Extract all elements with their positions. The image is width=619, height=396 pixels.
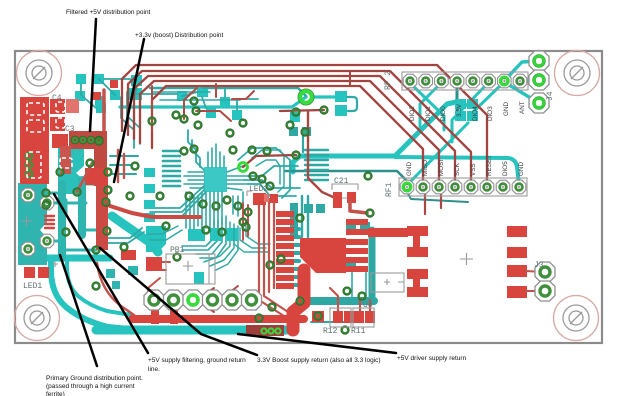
svg-text:Filtered +5V distribution poin: Filtered +5V distribution point: [66, 9, 151, 16]
wire: teal horizontal y96 going to J4: [313, 95, 336, 98]
wire: red pad right of blob: [312, 311, 324, 322]
svg-text:J3: J3: [534, 261, 544, 270]
wire: red stubs left-center: [118, 150, 124, 182]
svg-text:GND: GND: [518, 162, 525, 176]
header RF2 outline: [402, 72, 528, 90]
svg-text:C21: C21: [334, 177, 349, 186]
svg-text:VSS: VSS: [470, 163, 477, 176]
LED2 pads: [253, 193, 266, 205]
svg-text:MISO: MISO: [422, 160, 429, 176]
wire: red stubs below RF1: [425, 194, 441, 214]
wire: C21 to via: [350, 201, 367, 213]
wire: teal right-bottom misc: [302, 196, 308, 237]
origin cross left: [21, 216, 32, 226]
svg-text:U4: U4: [363, 301, 373, 310]
mounting hole H1 (top-left): [17, 51, 62, 96]
svg-text:J4: J4: [546, 91, 555, 101]
wire: red horizontal y110: [280, 110, 324, 111]
MCU pin fan: right: [227, 166, 248, 190]
cyan cluster above PB1: [188, 228, 238, 284]
wire: cyan to J4 top pad: [504, 61, 539, 81]
PB1 feed stubs: [151, 309, 159, 324]
wire: red verticals center-bottom: [259, 197, 288, 316]
wire: left thick cyan from LED1: [22, 255, 110, 262]
svg-text:line.: line.: [148, 366, 160, 373]
wire: teal around ferrite: [48, 193, 66, 214]
wire: red vertical strip x96-108: [96, 185, 108, 250]
mounting hole H2 (top-right): [555, 51, 600, 96]
wire: red diag into PB1 area: [196, 286, 238, 312]
svg-text:3.3V Boost supply return (also: 3.3V Boost supply return (also all 3.3 l…: [257, 357, 381, 364]
wire: red traces top-left of PB1: [148, 262, 170, 270]
wire: cyan ANT to J4 mid: [521, 79, 539, 84]
mounting hole H4 (bottom-right): [554, 296, 599, 341]
svg-text:DIO3: DIO3: [487, 106, 494, 121]
wire: teal fan extras: [204, 222, 238, 270]
svg-text:Primary Ground distribution po: Primary Ground distribution point.: [46, 375, 143, 382]
cyan pads top area (near C4): [75, 74, 300, 122]
wire: teal traces PB1 top: [234, 226, 270, 252]
SOIC ladder left of MCU: [163, 151, 180, 186]
PB1 pad3 bright ring: [188, 295, 198, 305]
PB1 origin cross: [183, 261, 193, 271]
capacitor C4 pads: [50, 99, 65, 114]
teal pads row above U5: [344, 222, 370, 271]
plane: cyan blob x60-81: [58, 148, 84, 194]
small pads on power block: [26, 153, 32, 177]
board origin cross right: [460, 253, 473, 265]
wire: bottom-layer GND bar (thick cyan bottom): [96, 326, 287, 335]
svg-text:ferrite): ferrite): [46, 391, 65, 396]
wire: teal right of MCU to C21 area: [244, 166, 300, 196]
wire: cyan thick from RF1 pad8: [395, 157, 519, 184]
vias scattered: [95, 137, 103, 145]
wire: teal loop right of MCU: [238, 148, 290, 198]
svg-text:DIO2: DIO2: [409, 106, 416, 121]
resistor R12 pads: [333, 311, 354, 323]
wire: red net around C3 vias: [77, 163, 92, 192]
svg-text:R11: R11: [351, 327, 366, 336]
teal ladder x303-330: [305, 150, 328, 180]
MCU pin fan: top: [208, 144, 224, 167]
svg-text:C3: C3: [65, 125, 75, 134]
capacitor C12 cyan pads near RF2: [455, 99, 478, 121]
resistor R11 pads: [354, 311, 375, 323]
wire: teal bundle PB1 fan: [182, 216, 226, 258]
leader line 1: [54, 19, 396, 366]
svg-text:ANT: ANT: [519, 101, 526, 114]
U5 pin stubs right: [346, 219, 368, 272]
wire: left column teal net: [47, 184, 106, 250]
via trio on GND bar: [261, 328, 280, 333]
svg-text:RF1: RF1: [385, 182, 394, 197]
wire: red strip below C3: [94, 149, 107, 186]
teal squares near PB1 left: [106, 266, 138, 289]
transistor U4 outline: [371, 273, 404, 292]
MCU U1 body: [204, 167, 227, 192]
power entry block left: [20, 97, 49, 184]
pad structure I1: [407, 226, 428, 257]
LED1 pads: [24, 267, 35, 278]
wire: cyan from RF1 pad1 down: [293, 102, 456, 172]
wire: teal upper area right of bus bend: [152, 92, 240, 100]
wire: red bottom bar: [132, 315, 304, 323]
svg-text:LED1: LED1: [23, 282, 42, 291]
resistor R11 outline: [353, 308, 374, 327]
leader line 2: [114, 39, 144, 182]
wire: red curve inside GND sweep: [97, 263, 134, 315]
wire: red around PB1 pads: [148, 278, 174, 311]
wire: teal bundle from left to MCU region: [104, 228, 144, 243]
svg-text:MOSI: MOSI: [438, 160, 445, 176]
wire: cyan diagonals under RF2: [409, 82, 444, 130]
leader line 3: [60, 255, 97, 366]
wire: teal stubs filler left-center: [110, 156, 138, 174]
bright green via (boost distribution): [300, 91, 311, 102]
driver PA ladder bars: [276, 211, 294, 289]
wire: R11/R12 risers: [330, 288, 370, 311]
connector J3 pads: [535, 262, 555, 282]
wire: red misc top-center: [152, 84, 254, 130]
svg-text:R12: R12: [323, 327, 338, 336]
header RF1 pads: [400, 180, 414, 194]
svg-text:RESET: RESET: [486, 155, 493, 176]
wire: nested teal curves upper-left of MCU: [121, 92, 140, 148]
teal PA ladder stripes right: [282, 229, 299, 285]
RF2 pad7 bright ring: [500, 77, 508, 85]
wire: teal from MCU down-left bundle: [148, 186, 206, 216]
wire: red trace down from bus: [349, 71, 351, 86]
J3 feed pads column: [507, 226, 527, 298]
wire: red horizontal y156: [243, 155, 296, 167]
wire: thin teal y322: [311, 321, 347, 323]
svg-text:+3.3v (boost) Distribution poi: +3.3v (boost) Distribution point: [135, 32, 224, 39]
wire: J3 connections: [525, 271, 545, 291]
bus wire 1 (top): [122, 65, 487, 186]
mounting hole H3 (bottom-left): [15, 296, 60, 341]
white dashed component outlines on power block: [27, 102, 72, 178]
leader line 5: [100, 248, 257, 355]
bus wire 3: [134, 76, 455, 186]
LED1 plus mark: [52, 261, 58, 267]
wire: teal vertical bar 1: [58, 184, 66, 258]
wire: red S-blob: [293, 270, 304, 330]
header RF1 outline: [399, 178, 527, 196]
RF1 pad1 bright ring: [403, 183, 411, 191]
wire: red curvy center-left: [99, 194, 200, 217]
plane: left teal plane: [18, 183, 47, 265]
dark red patch under via trio: [246, 325, 284, 336]
wire: cyan traces MCU to upper left: [188, 130, 204, 170]
connector C3 pad row: [71, 136, 103, 144]
pad structure I2: [407, 269, 428, 297]
wire: teal traces below MCU to bottom: [233, 192, 243, 218]
left power pads (white octagons): [21, 188, 35, 202]
plane: cyan blob left of PB1: [146, 226, 166, 252]
wire: cyan to J4 bottom pad: [409, 123, 468, 183]
wire: teal vertical bar right-center: [369, 230, 376, 300]
svg-text:RF 2: RF 2: [384, 71, 393, 90]
pushbutton PB1 outline: [166, 254, 215, 284]
LED2 underline bracket: [247, 191, 252, 196]
red square x122: [121, 250, 136, 260]
svg-text:PB1: PB1: [170, 246, 185, 255]
teal strip behind PA ladder (in red layer but under bars): [290, 203, 298, 239]
capacitor C21 outline: [332, 184, 358, 198]
svg-text:(passed through a high current: (passed through a high current: [46, 383, 135, 390]
bright green via right of MCU: [239, 163, 248, 172]
connector J4 pads: [529, 51, 549, 113]
svg-text:DIO1: DIO1: [425, 106, 432, 121]
wire: big cyan diagonal to PB1 blob: [112, 216, 158, 252]
board outline: [15, 51, 602, 343]
transistor U5 power block: [300, 238, 346, 273]
connector C3 block with pads: [69, 131, 107, 149]
wire: wide red bar to I-structure: [368, 228, 408, 237]
wire: teal bar y302: [300, 297, 374, 305]
U4 pad crosses: [384, 279, 404, 285]
red square left of PB1: [146, 257, 162, 271]
svg-text:LED2: LED2: [249, 185, 268, 194]
svg-text:C4: C4: [52, 94, 62, 103]
wire: teal from U5 down: [352, 271, 366, 298]
diode D1 pads above: [93, 92, 101, 100]
bus wire 2: [128, 71, 471, 186]
svg-text:SCK: SCK: [454, 162, 461, 176]
wire: teal vertical bar 2: [78, 180, 86, 235]
pushbutton PB1 pad row: [144, 290, 164, 310]
MCU pin fan: bottom ladder: [186, 192, 222, 232]
svg-text:GND: GND: [406, 162, 413, 176]
svg-text:DIO4: DIO4: [472, 106, 479, 121]
leader line 4: [54, 194, 148, 353]
wire: teal horizontal long y108: [120, 97, 306, 107]
wire: teal net top-left cluster: [81, 79, 258, 110]
bus wire 5: [152, 86, 423, 186]
wire: extra teal loops right of MCU: [252, 150, 284, 192]
svg-text:DIO5: DIO5: [502, 161, 509, 176]
MCU pin fan: left: [184, 172, 204, 188]
svg-text:DIO0: DIO0: [440, 106, 447, 121]
leader line 6: [238, 334, 396, 353]
svg-text:+5V supply filtering, ground r: +5V supply filtering, ground return: [148, 357, 246, 364]
resistor R12 outline: [330, 308, 351, 327]
bus wire 4: [140, 81, 439, 186]
wire: thin red trace x104 y90-130: [102, 90, 106, 130]
capacitor C21 pads: [333, 192, 342, 208]
svg-text:+5V driver supply return: +5V driver supply return: [397, 355, 467, 362]
ferrite bead FB1 stripes: [45, 216, 54, 228]
svg-text:3.3V: 3.3V: [456, 103, 463, 117]
svg-text:GND: GND: [503, 102, 510, 116]
header RF2 pads: [403, 74, 417, 88]
cyan component column x146-156: [144, 168, 155, 222]
